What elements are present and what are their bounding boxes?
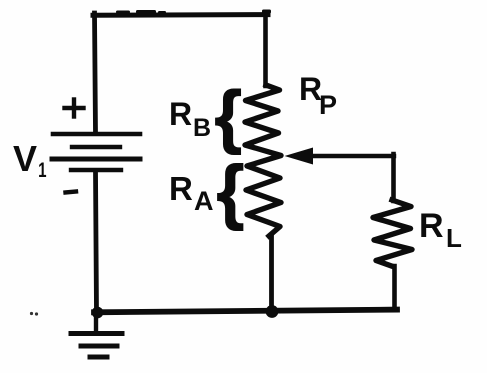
svg-text:L: L (446, 223, 462, 253)
junction node (pot bottom) (266, 305, 279, 318)
wiper arrowhead (285, 148, 314, 165)
battery V1 plate 3 (long) (52, 157, 140, 162)
wire top horizontal (93, 12, 268, 18)
wire right vertical lower (392, 266, 397, 310)
svg-text:P: P (319, 90, 337, 120)
svg-text:A: A (194, 186, 214, 216)
svg-text:R: R (419, 207, 444, 245)
battery V1 plate 1 (long, +) (53, 132, 140, 137)
wire left vertical lower (battery - lead) (96, 171, 97, 313)
battery V1 plate 4 (short, -) (71, 168, 121, 172)
junction node (ground/battery) (92, 307, 104, 319)
resistor RL zigzag (373, 200, 412, 267)
noise specks (30, 312, 33, 315)
ground stem (94, 313, 98, 332)
wire bottom horizontal (94, 310, 397, 313)
plus sign (65, 106, 84, 110)
svg-text:R: R (169, 96, 192, 132)
svg-text:{: { (217, 152, 245, 232)
ground bar 2 (81, 344, 117, 349)
wire left vertical upper (battery + lead) (95, 13, 96, 133)
ground bar 3 (90, 355, 107, 360)
svg-text:R: R (169, 170, 193, 207)
minus sign (66, 192, 77, 193)
svg-text:B: B (193, 114, 211, 142)
svg-text:1: 1 (38, 157, 46, 181)
scan specks on top wire (116, 11, 130, 14)
battery V1 plate 2 (short) (72, 145, 120, 149)
potentiometer RP zigzag (245, 85, 281, 236)
wire right vertical upper (to RL) (391, 154, 396, 201)
wire pot top vertical (263, 13, 268, 86)
wire pot bottom vertical (269, 235, 274, 312)
svg-text:V: V (13, 138, 37, 179)
svg-text:{: { (215, 76, 242, 155)
ground bar 1 (71, 331, 122, 336)
wiper arrow wire (309, 154, 394, 158)
